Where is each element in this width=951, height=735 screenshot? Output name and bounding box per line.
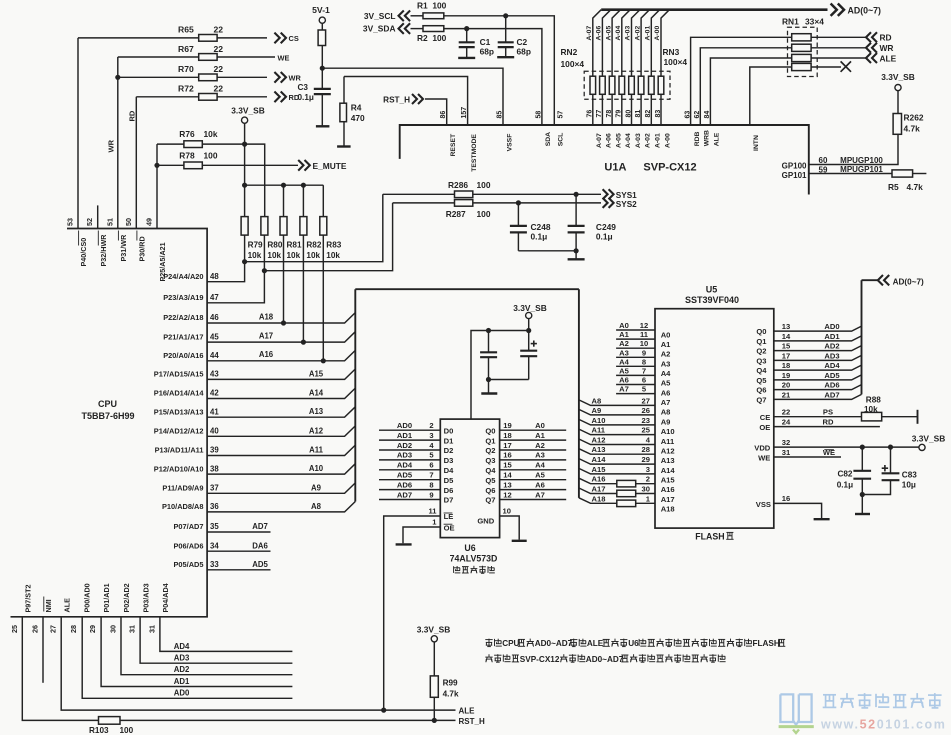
- svg-text:R72: R72: [178, 84, 194, 94]
- wire R81 top: [283, 185, 285, 216]
- svg-text:28: 28: [69, 625, 78, 633]
- arrow AD(0-7): [838, 4, 844, 16]
- wire A7 stub to U5: [616, 393, 655, 395]
- svg-text:FLASH: FLASH: [695, 532, 724, 542]
- svg-text:31: 31: [147, 625, 156, 633]
- junction 5V node: [320, 66, 325, 71]
- svg-text:7: 7: [642, 366, 646, 375]
- svg-text:A2: A2: [661, 350, 671, 359]
- svg-text:AD0: AD0: [824, 322, 839, 331]
- wire E_MUTE net vertical to CPU pin 49: [156, 144, 158, 228]
- ground C3: [316, 125, 330, 127]
- svg-text:45: 45: [210, 332, 219, 341]
- svg-text:AD3: AD3: [174, 654, 190, 663]
- svg-text:157: 157: [461, 107, 468, 119]
- svg-text:31: 31: [128, 625, 137, 633]
- svg-text:100: 100: [120, 726, 134, 735]
- wire R81 bottom to pin 46: [283, 235, 285, 323]
- wire R82 top: [302, 185, 304, 216]
- svg-text:AD1: AD1: [397, 431, 413, 440]
- svg-text:Q6: Q6: [756, 386, 766, 395]
- wire A15 line to bus: [207, 369, 355, 379]
- svg-text:AD7: AD7: [397, 490, 412, 499]
- wire pin 52 stub: [97, 205, 99, 228]
- svg-text:P24/A4/A20: P24/A4/A20: [163, 272, 203, 281]
- pin 32 VDD wire to 3.3V_SB: [774, 446, 919, 448]
- svg-text:AD5: AD5: [824, 371, 840, 380]
- svg-text:59: 59: [819, 166, 828, 175]
- svg-text:P16/AD14/A14: P16/AD14/A14: [154, 389, 205, 398]
- svg-text:8: 8: [642, 357, 646, 366]
- svg-text:A12: A12: [592, 436, 606, 445]
- svg-text:A14: A14: [309, 389, 324, 398]
- wire RD line: [136, 96, 267, 98]
- arrow CS: [281, 33, 286, 44]
- resistor RN element 76: [590, 76, 596, 94]
- resistor RN element 80: [629, 76, 635, 94]
- svg-text:CPU: CPU: [98, 399, 117, 409]
- bus AD(0-7) top: [601, 8, 827, 11]
- svg-text:6: 6: [429, 461, 433, 470]
- svg-text:0.1μ: 0.1μ: [531, 232, 548, 242]
- wire A12 line to U5: [579, 439, 655, 445]
- svg-text:P30/RD: P30/RD: [138, 236, 147, 261]
- svg-text:R83: R83: [326, 240, 341, 249]
- svg-text:C248: C248: [531, 222, 551, 232]
- svg-text:RST_H: RST_H: [383, 96, 410, 105]
- svg-text:A18: A18: [592, 494, 606, 503]
- svg-text:P11/AD9/A9: P11/AD9/A9: [162, 484, 203, 493]
- capacitor C249 0.1u: [575, 194, 577, 226]
- svg-text:SYS1: SYS1: [616, 191, 637, 200]
- svg-text:35: 35: [210, 522, 219, 531]
- svg-text:A-05: A-05: [615, 133, 622, 148]
- wire AD1 line: [101, 617, 292, 687]
- resistor network RN1 33x4 dashed box: [788, 27, 818, 76]
- svg-text:A15: A15: [592, 465, 607, 474]
- svg-text:U6: U6: [464, 543, 475, 553]
- svg-text:P01/AD1: P01/AD1: [102, 583, 111, 612]
- latch U6 74ALV573D box: [440, 419, 499, 537]
- svg-text:5: 5: [642, 385, 647, 394]
- svg-text:60: 60: [819, 156, 828, 165]
- ground R4: [337, 145, 351, 147]
- svg-text:28: 28: [642, 445, 650, 454]
- svg-text:CE: CE: [760, 413, 771, 422]
- svg-text:SVP-CX12: SVP-CX12: [520, 655, 560, 664]
- svg-text:SCL: SCL: [558, 133, 565, 147]
- wire A13 line to U5: [579, 449, 655, 455]
- svg-text:Q7: Q7: [485, 496, 495, 505]
- svg-text:SDA: SDA: [545, 132, 552, 146]
- svg-text:PS: PS: [823, 408, 833, 417]
- svg-text:U5: U5: [706, 284, 718, 294]
- wire U6 Q7 stub A7: [500, 499, 567, 501]
- resistor RN element 81: [638, 76, 644, 94]
- wire A14 line to bus: [207, 388, 355, 398]
- svg-text:83: 83: [655, 110, 662, 118]
- svg-text:A-05: A-05: [605, 26, 612, 41]
- svg-text:10k: 10k: [306, 251, 320, 260]
- wire Q7 to AD bus: [774, 394, 862, 399]
- resistor R76 10k: [184, 141, 202, 148]
- wire SYS1 from R79 join: [245, 194, 383, 261]
- junction R78 line: [154, 163, 159, 168]
- svg-text:12: 12: [640, 321, 648, 330]
- svg-text:D5: D5: [444, 476, 454, 485]
- capacitor C1 68p: [466, 29, 468, 43]
- wire pullup top rail: [245, 184, 324, 186]
- svg-text:VSS: VSS: [756, 500, 771, 509]
- svg-text:29: 29: [642, 455, 650, 464]
- svg-text:U1A: U1A: [604, 162, 626, 174]
- wire AD7 stub: [207, 531, 270, 533]
- wire CS net vertical to CPU pin 53: [77, 38, 79, 229]
- svg-text:43: 43: [210, 370, 219, 379]
- svg-text:12: 12: [503, 490, 511, 499]
- svg-text:3V_SDA: 3V_SDA: [363, 23, 396, 33]
- svg-text:49: 49: [145, 218, 154, 226]
- svg-text:SVP-CX12: SVP-CX12: [643, 162, 696, 174]
- resistor unlabeled below 5V-1: [318, 30, 326, 46]
- CPU U2 T5BB7-6H99 outline: [11, 229, 208, 617]
- junction cap bottom: [486, 377, 491, 382]
- svg-text:A8: A8: [661, 408, 671, 417]
- svg-text:R287: R287: [446, 209, 466, 219]
- svg-text:10: 10: [640, 339, 648, 348]
- wire SYS1 line: [383, 193, 601, 195]
- junction at supply: [526, 328, 531, 333]
- svg-text:WE: WE: [278, 53, 290, 62]
- svg-text:23: 23: [642, 416, 650, 425]
- svg-text:RD: RD: [128, 110, 137, 121]
- svg-text:A3: A3: [619, 348, 629, 357]
- wire A8 line to bus: [207, 502, 355, 512]
- resistor R1 100: [423, 13, 444, 19]
- arrow SYS2: [609, 198, 614, 208]
- svg-text:26: 26: [642, 406, 650, 415]
- svg-text:RDB: RDB: [694, 131, 701, 146]
- svg-text:36: 36: [210, 502, 219, 511]
- svg-text:A11: A11: [309, 446, 324, 455]
- svg-text:RN1: RN1: [782, 16, 799, 26]
- svg-text:P22/A2/A18: P22/A2/A18: [163, 313, 203, 322]
- wire pin 47 riser: [207, 271, 264, 303]
- wire A11 line to bus: [207, 445, 355, 455]
- wire A-01 riser: [651, 10, 659, 77]
- junction R81 top: [281, 183, 286, 188]
- svg-text:R65: R65: [178, 25, 194, 35]
- wire SCL line: [411, 15, 424, 17]
- svg-text:52: 52: [85, 218, 94, 226]
- wire pin 45 A17 line: [207, 332, 355, 342]
- wire RD net vertical to CPU pin 50: [135, 97, 137, 229]
- svg-text:A9: A9: [592, 406, 602, 415]
- ground U6 caps: [481, 392, 497, 394]
- resistor RN element 77: [600, 76, 606, 94]
- resistor R103 100: [99, 717, 121, 725]
- watermark text 家电维修资料网: [823, 694, 836, 696]
- svg-text:A-04: A-04: [625, 133, 632, 148]
- svg-text:A17: A17: [259, 331, 273, 340]
- svg-text:0.1μ: 0.1μ: [298, 93, 314, 102]
- svg-text:P07/AD7: P07/AD7: [174, 522, 204, 531]
- svg-text:27: 27: [642, 396, 650, 405]
- resistor R67 22: [199, 54, 217, 61]
- svg-text:9: 9: [642, 348, 646, 357]
- svg-text:3: 3: [429, 431, 433, 440]
- svg-text:10k: 10k: [287, 251, 301, 260]
- svg-text:D2: D2: [444, 446, 454, 455]
- resistor R70 22: [199, 74, 217, 81]
- wire R80 bottom to join: [263, 235, 265, 271]
- termination bar: [917, 410, 919, 424]
- arrow E_MUTE: [305, 160, 310, 171]
- resistor R72 22: [199, 94, 217, 101]
- wire A0 stub to U5: [616, 329, 655, 331]
- svg-text:AD6: AD6: [824, 381, 839, 390]
- svg-text:3.3V_SB: 3.3V_SB: [513, 303, 547, 313]
- svg-text:29: 29: [88, 625, 97, 633]
- svg-text:LE: LE: [444, 512, 454, 521]
- wire to WR: [811, 47, 866, 49]
- svg-text:P17/AD15/A15: P17/AD15/A15: [154, 370, 204, 379]
- resistor RN element 78: [609, 76, 615, 94]
- svg-text:31: 31: [782, 448, 791, 457]
- svg-text:AD0~AD7: AD0~AD7: [586, 655, 624, 664]
- junction U6 LE on ALE: [381, 708, 386, 713]
- svg-text:A-02: A-02: [644, 133, 651, 148]
- svg-text:Q0: Q0: [485, 426, 495, 435]
- svg-text:A1: A1: [619, 330, 629, 339]
- svg-text:P23/A3/A19: P23/A3/A19: [163, 293, 203, 302]
- flash U5 SST39VF040 box: [655, 309, 774, 528]
- wire AD4 line: [160, 617, 293, 652]
- svg-text:42: 42: [210, 389, 219, 398]
- svg-text:A-02: A-02: [634, 26, 641, 41]
- svg-text:A12: A12: [309, 426, 324, 435]
- wire A-04 riser: [622, 10, 630, 77]
- svg-text:A6: A6: [619, 376, 629, 385]
- wire A9 line to U5: [579, 409, 655, 415]
- svg-text:16: 16: [503, 451, 511, 460]
- svg-text:A17: A17: [592, 485, 606, 494]
- bus AD(0-7) right spine: [861, 280, 863, 394]
- wire CS line: [78, 37, 267, 39]
- svg-text:AD7: AD7: [252, 522, 268, 531]
- svg-text:SYS2: SYS2: [616, 200, 637, 209]
- svg-text:470: 470: [351, 113, 365, 123]
- svg-text:CPU: CPU: [502, 639, 519, 648]
- wire to R262: [897, 91, 899, 114]
- wire A16 line to U5: [579, 478, 655, 484]
- svg-text:R82: R82: [306, 240, 321, 249]
- svg-text:T5BB7-6H99: T5BB7-6H99: [81, 411, 134, 421]
- svg-text:78: 78: [606, 110, 613, 118]
- wire Q6 to AD bus: [774, 385, 862, 390]
- svg-text:AD2: AD2: [397, 441, 412, 450]
- wire A10 line to bus: [207, 464, 355, 474]
- svg-text:A5: A5: [619, 366, 629, 375]
- svg-text:Q3: Q3: [756, 356, 766, 365]
- svg-text:A-00: A-00: [664, 133, 671, 148]
- svg-text:A7: A7: [619, 385, 629, 394]
- svg-text:A3: A3: [535, 451, 545, 460]
- svg-text:A-03: A-03: [625, 26, 632, 41]
- wire AD3 to U6 D3: [379, 459, 440, 461]
- svg-text:10k: 10k: [204, 129, 218, 139]
- svg-text:57: 57: [557, 111, 564, 119]
- svg-text:A6: A6: [535, 480, 545, 489]
- svg-text:A10: A10: [592, 416, 606, 425]
- svg-text:P13/AD11/A11: P13/AD11/A11: [155, 446, 204, 455]
- svg-text:24: 24: [782, 417, 791, 426]
- wire to junction: [321, 46, 323, 69]
- svg-text:P02/AD2: P02/AD2: [122, 583, 131, 612]
- svg-text:4: 4: [429, 441, 434, 450]
- svg-text:3.3V_SB: 3.3V_SB: [231, 105, 265, 115]
- svg-text:R70: R70: [178, 64, 194, 74]
- wire WR line: [118, 76, 267, 78]
- svg-text:A2: A2: [535, 441, 545, 450]
- wire A3 stub to U5: [616, 356, 655, 358]
- svg-text:RST_H: RST_H: [459, 717, 485, 726]
- svg-text:18: 18: [782, 361, 790, 370]
- wire to no-connect: [811, 66, 841, 68]
- wire R88 right to termination: [882, 416, 918, 418]
- svg-text:32: 32: [782, 438, 790, 447]
- svg-text:18: 18: [503, 431, 511, 440]
- svg-text:11: 11: [428, 507, 437, 516]
- wire SYS2 from R80 join: [264, 203, 392, 271]
- svg-text:WRB: WRB: [704, 130, 711, 146]
- svg-text:A17: A17: [661, 495, 675, 504]
- svg-text:20: 20: [782, 381, 790, 390]
- svg-text:AD5: AD5: [397, 471, 413, 480]
- svg-text:A7: A7: [535, 490, 545, 499]
- svg-text:A-00: A-00: [654, 26, 661, 41]
- svg-text:3.3V_SB: 3.3V_SB: [417, 625, 451, 635]
- svg-text:Q2: Q2: [485, 446, 495, 455]
- svg-text:51: 51: [105, 218, 114, 226]
- svg-text:R88: R88: [866, 396, 881, 405]
- wire 5V-1 down: [321, 23, 323, 30]
- svg-text:AD6: AD6: [397, 480, 412, 489]
- wire 5V node to VSSF pin 85: [322, 68, 503, 125]
- wire AD0 line: [82, 617, 292, 699]
- svg-text:ALE: ALE: [459, 706, 476, 715]
- svg-text:AD0~AD7: AD0~AD7: [535, 639, 573, 648]
- svg-text:DA6: DA6: [252, 541, 268, 550]
- resistor R262 4.7k: [893, 114, 901, 135]
- wire A11 line to U5: [579, 429, 655, 435]
- svg-text:WR: WR: [880, 43, 894, 53]
- wire A-06 riser: [602, 10, 610, 77]
- wire NMI stub: [42, 617, 44, 683]
- svg-text:A4: A4: [619, 357, 629, 366]
- wire U6 Q2 stub A2: [500, 449, 567, 451]
- wire DA6 stub: [207, 550, 270, 552]
- svg-text:R5: R5: [888, 182, 899, 192]
- resistor R5 4.7k: [892, 170, 913, 177]
- svg-text:68p: 68p: [517, 47, 531, 57]
- svg-text:INTN: INTN: [753, 135, 760, 151]
- svg-text:A1: A1: [535, 431, 545, 440]
- wire MPUGP101: [809, 173, 893, 175]
- svg-text:11: 11: [640, 330, 649, 339]
- wire RDB to RN1: [691, 37, 792, 125]
- svg-text:C83: C83: [902, 470, 917, 479]
- svg-text:22: 22: [782, 408, 790, 417]
- svg-text:62: 62: [694, 111, 701, 119]
- wire A-05 riser: [612, 10, 620, 77]
- svg-text:D4: D4: [444, 466, 454, 475]
- wire Q2 to AD bus: [774, 346, 862, 351]
- svg-text:P97/ST2: P97/ST2: [24, 585, 33, 613]
- wire Q0 to AD bus: [774, 326, 862, 331]
- wire SCL to pin 57: [444, 16, 555, 125]
- junction C249 tap: [574, 192, 579, 197]
- ground C2: [497, 56, 514, 58]
- svg-text:25: 25: [10, 625, 19, 633]
- svg-text:D7: D7: [444, 496, 454, 505]
- resistor RN1 element y=47.8: [792, 44, 811, 51]
- wire AD2 to U6 D2: [379, 449, 440, 451]
- svg-text:A-06: A-06: [596, 26, 603, 41]
- svg-text:R2 100: R2 100: [417, 33, 447, 43]
- wire A2 stub to U5: [616, 347, 655, 349]
- svg-text:A10: A10: [661, 427, 675, 436]
- svg-text:4.7k: 4.7k: [904, 124, 921, 134]
- svg-text:22: 22: [214, 84, 224, 94]
- wire AD6 to U6 D6: [379, 489, 440, 491]
- resistor R2 100: [423, 26, 444, 32]
- wire WE line: [118, 56, 275, 58]
- svg-text:GND: GND: [477, 516, 494, 525]
- svg-text:80: 80: [625, 110, 632, 118]
- svg-text:AD0: AD0: [397, 421, 412, 430]
- svg-text:AD4: AD4: [824, 361, 840, 370]
- svg-text:P05/AD5: P05/AD5: [174, 560, 204, 569]
- svg-text:P15/AD13/A13: P15/AD13/A13: [154, 407, 204, 416]
- wire A18 line to U5: [579, 498, 655, 504]
- svg-text:Q3: Q3: [485, 456, 495, 465]
- svg-text:14: 14: [503, 471, 512, 480]
- watermark logo book: [780, 694, 793, 722]
- wire Q5 to AD bus: [774, 375, 862, 380]
- svg-text:3V_SCL: 3V_SCL: [364, 11, 396, 21]
- svg-text:77: 77: [596, 110, 603, 118]
- wire pin 48 riser: [207, 262, 245, 282]
- resistor RN element 83: [658, 76, 664, 94]
- no-connect X: [841, 61, 851, 71]
- svg-text:100: 100: [477, 180, 491, 190]
- plus sign C83: [882, 467, 888, 469]
- svg-text:3.3V_SB: 3.3V_SB: [912, 433, 946, 443]
- wire R76 line: [157, 144, 265, 217]
- svg-text:AD4: AD4: [397, 461, 413, 470]
- svg-text:RD: RD: [823, 417, 834, 426]
- svg-text:MPUGP101: MPUGP101: [840, 165, 883, 174]
- svg-text:A-06: A-06: [606, 133, 613, 148]
- svg-text:A15: A15: [661, 476, 676, 485]
- svg-text:13: 13: [782, 322, 790, 331]
- wire RST_H line: [22, 617, 98, 721]
- svg-text:P10/AD8/A8: P10/AD8/A8: [162, 502, 204, 511]
- svg-text:A2: A2: [619, 339, 629, 348]
- svg-text:AD0: AD0: [174, 689, 190, 698]
- svg-text:A11: A11: [661, 437, 675, 446]
